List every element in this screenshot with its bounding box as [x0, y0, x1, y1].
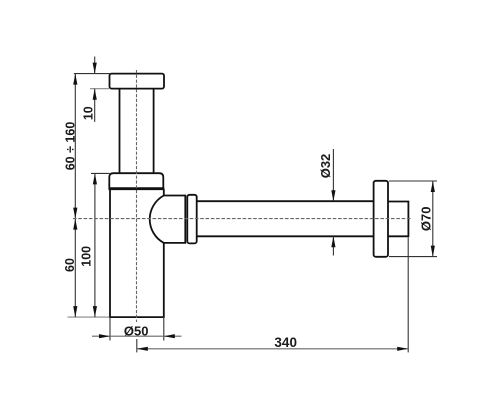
- extension line cup bottom-right corner: [163, 317, 165, 340]
- wall rosette flange: [374, 181, 388, 257]
- svg-text:60 ÷ 160: 60 ÷ 160: [63, 122, 77, 171]
- top flange of inlet pipe: [110, 74, 165, 89]
- outlet pipe bottom wall: [197, 235, 374, 237]
- collar nut on trap body: [109, 173, 163, 188]
- dimension 100 line: [94, 173, 96, 317]
- extension line collar top: [91, 172, 110, 174]
- dimension 340 left arrow: [137, 347, 148, 351]
- dimension 60÷160 line: [74, 74, 76, 219]
- extension line flange top: [74, 73, 110, 75]
- dimension Ø32 lower arrow (points up): [331, 236, 335, 247]
- svg-text:60: 60: [63, 258, 77, 272]
- dimension Ø70 bottom arrow: [431, 246, 435, 257]
- dimension 340 right arrow: [397, 347, 408, 351]
- dimension Ø50 left arrow (points right): [99, 334, 110, 338]
- outlet pipe top wall: [197, 200, 374, 202]
- dimension Ø32 upper arrow (points down): [331, 190, 335, 201]
- dimension 60÷160 top arrow: [73, 74, 77, 85]
- trap cup body: [110, 189, 164, 317]
- extension line 340 right (from stub corner): [407, 238, 409, 353]
- svg-text:10: 10: [81, 106, 95, 120]
- outlet nut: [187, 195, 196, 244]
- wall pipe stub: [388, 202, 408, 237]
- inlet pipe wall left: [119, 89, 121, 174]
- dimension Ø50 right arrow (points left): [164, 334, 175, 338]
- extension line rosette top: [389, 180, 437, 182]
- vertical centerline of trap body: [136, 70, 138, 322]
- inlet pipe wall right: [153, 89, 155, 174]
- extension line cup bottom (left): [68, 316, 110, 318]
- extension line flange bottom (grey): [90, 88, 109, 90]
- svg-text:Ø70: Ø70: [419, 207, 434, 232]
- dimension 10: lower tail and arrow: [94, 89, 96, 122]
- dimension Ø50 line with outside tails: [92, 335, 182, 337]
- extension line cup bottom-left corner: [109, 317, 111, 340]
- horizontal centerline of outlet pipe: [73, 218, 412, 220]
- dimension 60 bottom arrow: [73, 306, 77, 317]
- svg-text:340: 340: [274, 335, 297, 350]
- elbow rounded cap: [150, 196, 186, 243]
- dimension 340 line: [137, 348, 408, 350]
- dimension Ø70 top arrow: [431, 181, 435, 192]
- svg-text:Ø32: Ø32: [318, 154, 333, 179]
- dimension 60 line: [74, 219, 76, 318]
- svg-text:100: 100: [79, 246, 93, 267]
- dimension 100 bottom arrow: [93, 306, 97, 317]
- dimension 60 top arrow: [73, 219, 77, 230]
- dimension Ø70 line: [432, 181, 434, 257]
- dimension Ø32 lower tail: [332, 236, 334, 255]
- dimension 60÷160 bottom arrow: [73, 208, 77, 219]
- dimension 10: upper tail and arrow: [94, 57, 96, 74]
- extension line 340 left (below Ø50): [136, 339, 138, 352]
- collar nut thick bottom edge: [109, 187, 165, 190]
- svg-text:Ø50: Ø50: [124, 323, 149, 338]
- extension line rosette bottom: [389, 256, 437, 258]
- dimension Ø32 upper tail: [332, 149, 334, 201]
- dimension 100 top arrow: [93, 173, 97, 184]
